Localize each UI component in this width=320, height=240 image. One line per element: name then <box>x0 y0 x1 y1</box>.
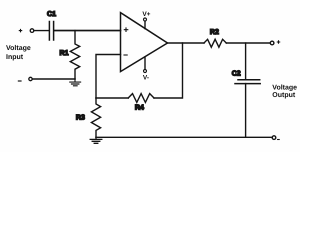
resistor R3 <box>91 98 100 137</box>
resistor R4 <box>128 94 154 103</box>
plus sign (noninverting input) <box>124 28 128 32</box>
svg-text:R1: R1 <box>60 50 69 57</box>
svg-text:V-: V- <box>143 75 149 82</box>
wire (C2 bottom lead) <box>245 84 247 138</box>
minus polarity mark (output) <box>278 139 280 141</box>
V+ terminal <box>144 18 147 21</box>
svg-text:C2: C2 <box>232 70 241 77</box>
op-amp U1 <box>121 13 168 72</box>
ground (under R1) <box>70 79 81 86</box>
wire <box>32 78 75 80</box>
svg-text:C1: C1 <box>47 11 56 18</box>
wire (V+ to op-amp) <box>144 21 146 28</box>
output terminal - (bottom right) <box>272 136 276 140</box>
resistor R2 <box>204 39 226 47</box>
plus polarity mark (output) <box>277 41 279 43</box>
svg-text:R3: R3 <box>76 115 85 122</box>
resistor R1 <box>70 31 79 79</box>
wire <box>54 30 120 32</box>
svg-text:R2: R2 <box>210 29 219 36</box>
wire (op-amp to V-) <box>144 57 146 69</box>
wire (bottom rail) <box>96 136 272 138</box>
ground (under R3) <box>90 137 102 143</box>
capacitor C2 <box>235 80 260 84</box>
minus polarity mark (input) <box>18 80 21 82</box>
wire (C2 top lead) <box>245 43 247 80</box>
svg-text:R4: R4 <box>135 104 144 111</box>
input terminal + (top left) <box>30 29 34 33</box>
wire (feedback from output) <box>154 43 183 98</box>
minus sign (inverting input) <box>124 54 127 56</box>
svg-text:Output: Output <box>272 92 296 99</box>
wire (output to terminal) <box>226 42 270 44</box>
wire (noninverting input) <box>54 30 121 32</box>
svg-text:V+: V+ <box>142 11 150 18</box>
capacitor C1 <box>49 22 53 41</box>
output terminal + (top right) <box>270 41 274 45</box>
svg-text:Input: Input <box>6 54 24 61</box>
wire (R4 to inverting node) <box>96 97 128 99</box>
input terminal - (bottom left) <box>29 77 32 80</box>
svg-text:Voltage: Voltage <box>272 83 297 91</box>
svg-text:Voltage: Voltage <box>6 44 31 52</box>
wire (output) <box>168 42 205 44</box>
V- terminal <box>144 70 147 73</box>
wire <box>34 30 49 32</box>
plus polarity mark (input) <box>19 29 21 31</box>
wire (inverting input) <box>96 55 121 99</box>
